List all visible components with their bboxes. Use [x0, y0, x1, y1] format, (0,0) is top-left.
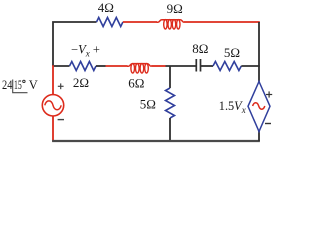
- inductor 9ohm top (red coil): [157, 20, 185, 29]
- dependent source diamond 1.5Vx: [248, 82, 270, 132]
- wire top red segment right of inductor: [184, 21, 260, 23]
- svg-text:8Ω: 8Ω: [192, 41, 208, 56]
- svg-text:15: 15: [14, 78, 22, 92]
- svg-text:4Ω: 4Ω: [98, 0, 114, 15]
- wire middle row black segment from left rail: [53, 65, 70, 67]
- svg-text:9Ω: 9Ω: [167, 1, 183, 16]
- resistor 2ohm (blue zigzag): [70, 62, 97, 71]
- resistor 5ohm horizontal (blue zigzag): [213, 62, 241, 71]
- wire top red segment left of inductor: [123, 21, 157, 23]
- resistor 4ohm top (blue zigzag): [97, 18, 123, 27]
- minus sign at diamond: [265, 123, 271, 125]
- plus sign at diamond: [266, 91, 272, 97]
- wire top-left black segment: [53, 22, 97, 66]
- wire below vertical 5ohm: [169, 118, 171, 141]
- minus sign at source: [58, 119, 64, 121]
- wire left vertical red above source: [52, 65, 54, 95]
- svg-text:24: 24: [2, 78, 13, 92]
- inductor 6ohm middle (red coil): [127, 64, 151, 73]
- sine wave inside source: [45, 101, 61, 110]
- node junction at vertical 5ohm branch: [169, 66, 171, 88]
- wire left vertical red below source: [52, 116, 54, 142]
- wire right vertical upper (black): [258, 22, 260, 82]
- sine wave inside diamond: [253, 103, 265, 109]
- capacitor 8ohm plates: [196, 59, 200, 72]
- wire black 5ohm to right rail: [241, 65, 259, 67]
- svg-text:5Ω: 5Ω: [140, 97, 156, 112]
- svg-text:V: V: [29, 78, 38, 92]
- svg-text:−Vx +: −Vx +: [71, 43, 100, 59]
- svg-text:6Ω: 6Ω: [128, 76, 144, 91]
- plus sign at source: [58, 83, 64, 89]
- svg-text:5Ω: 5Ω: [224, 45, 240, 60]
- wire black capacitor to 5ohm: [201, 65, 214, 67]
- svg-text:1.5Vx: 1.5Vx: [219, 99, 246, 115]
- wire middle short black after 2ohm: [96, 65, 106, 67]
- wire middle red into 6ohm coil: [106, 65, 128, 67]
- voltage source circle 24V: [42, 95, 63, 116]
- wire right vertical below diamond: [258, 131, 260, 141]
- wire middle red after coil: [151, 65, 165, 67]
- resistor 5ohm vertical (blue zigzag): [166, 88, 175, 118]
- source label 24 angle 15 V: [2, 78, 38, 93]
- wire bottom rail: [52, 140, 260, 142]
- wire middle black to capacitor: [166, 65, 196, 67]
- svg-text:2Ω: 2Ω: [73, 75, 89, 90]
